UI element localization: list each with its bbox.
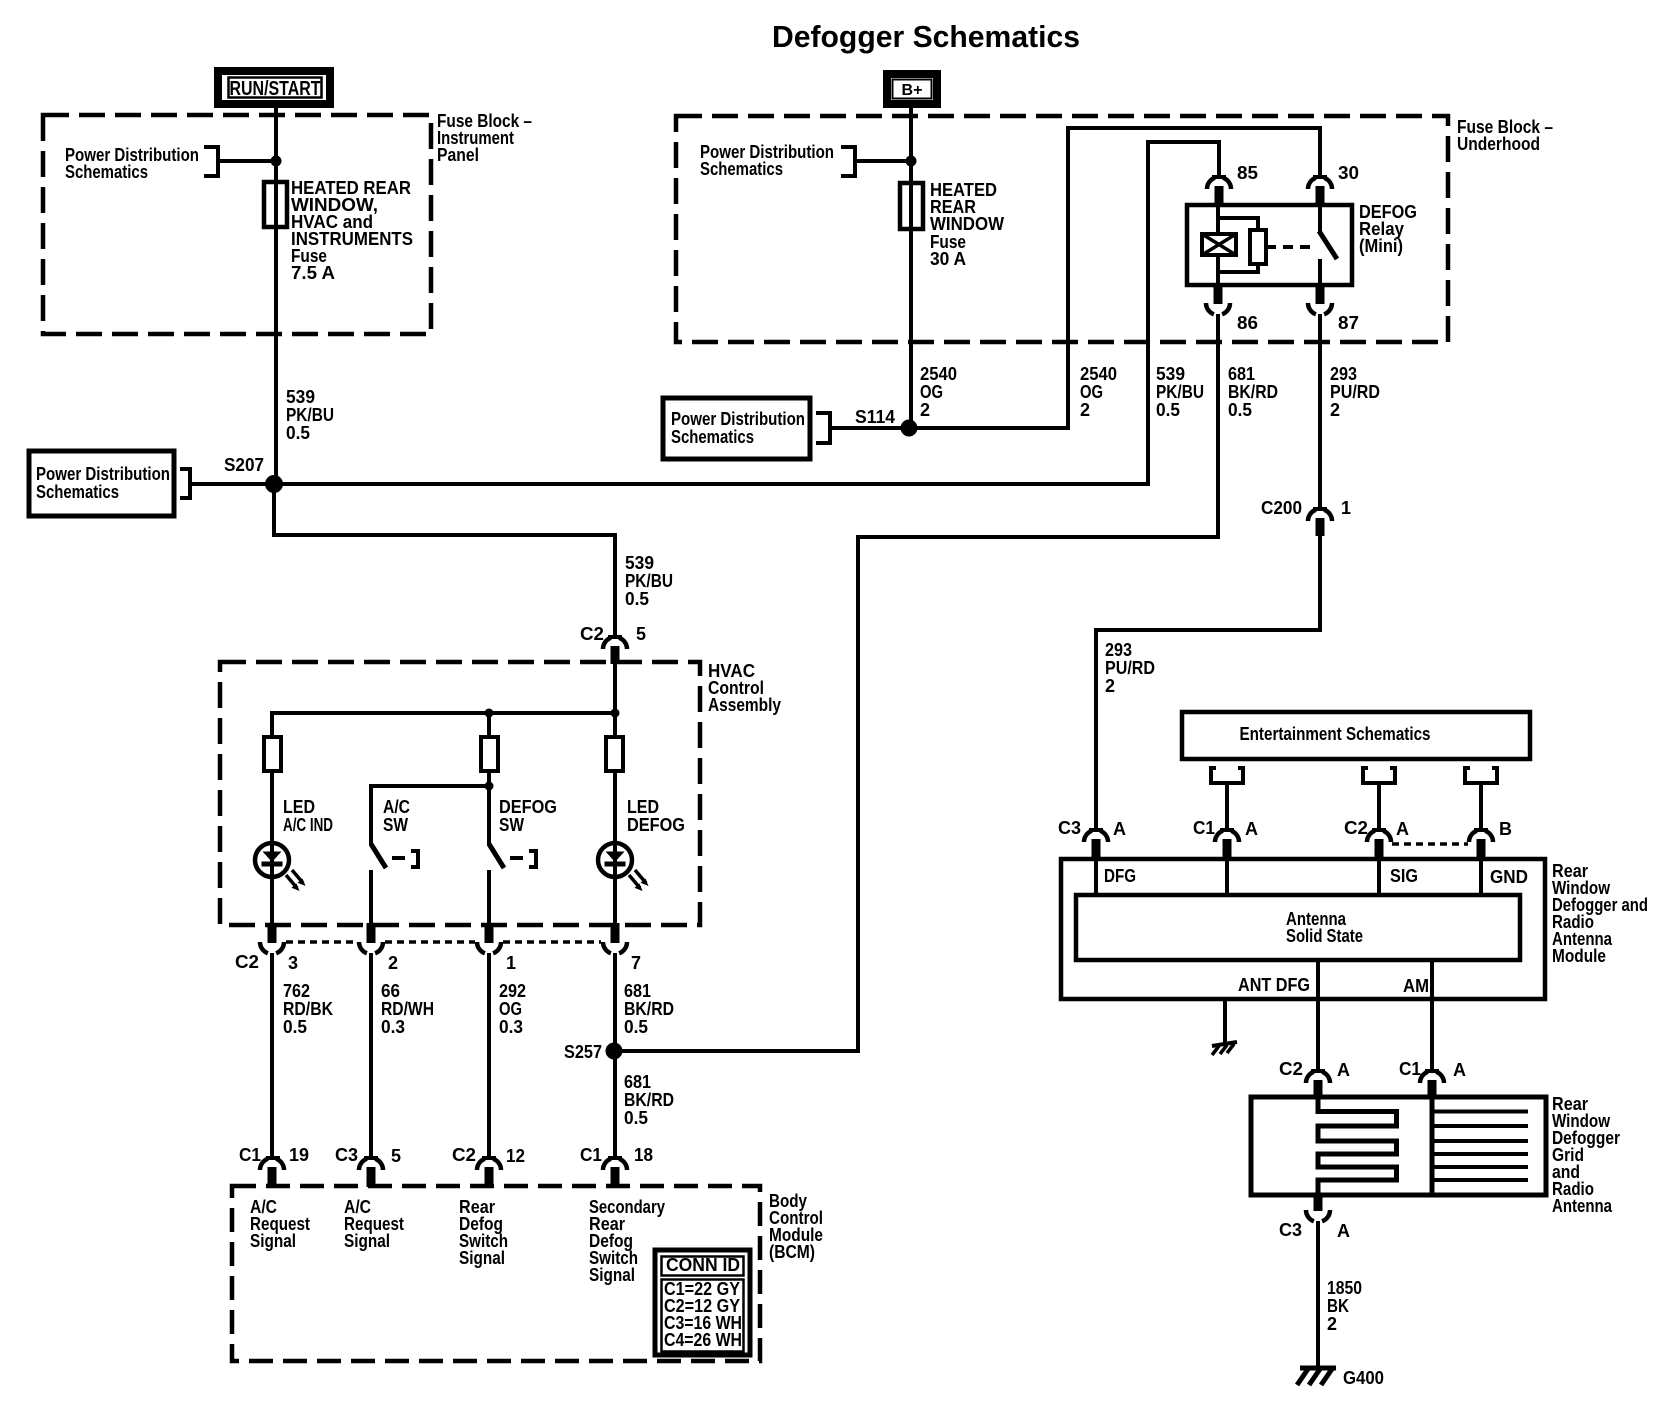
- label: circuit 762 RD/BK 0.5: [283, 981, 333, 1037]
- svg-text:DEFOG: DEFOG: [627, 815, 685, 835]
- svg-text:Defogger Schematics: Defogger Schematics: [772, 19, 1080, 54]
- svg-text:19: 19: [289, 1145, 309, 1165]
- label: circuit 293 PU/RD 2 (at relay): [1330, 364, 1380, 420]
- wire: resistor to LED DEFOG to connector: [613, 771, 617, 926]
- wire: bracket to S207: [190, 482, 268, 486]
- lead bracket: entertainment to B: [1465, 768, 1497, 830]
- lead bracket: entertainment to C2-A: [1363, 768, 1395, 830]
- title: Defogger Schematics: [772, 19, 1080, 54]
- label: circuit 66 RD/WH 0.3: [381, 981, 434, 1037]
- svg-text:12: 12: [506, 1146, 525, 1166]
- wire: 66 RD/WH to BCM: [369, 953, 373, 1158]
- HVAC control assembly dashed box: [220, 662, 700, 925]
- svg-text:A: A: [1396, 819, 1409, 839]
- svg-text:Schematics: Schematics: [700, 159, 783, 179]
- svg-text:Underhood: Underhood: [1457, 134, 1540, 154]
- label: Fuse Block - Underhood: [1457, 117, 1553, 154]
- svg-text:C3: C3: [335, 1145, 358, 1165]
- resistor: DEFOG SW branch resistor: [481, 737, 498, 771]
- svg-text:Assembly: Assembly: [708, 695, 781, 715]
- svg-text:Power Distribution: Power Distribution: [671, 409, 805, 429]
- svg-text:0.5: 0.5: [624, 1017, 648, 1037]
- svg-text:7: 7: [631, 953, 641, 973]
- svg-text:C3: C3: [1279, 1220, 1302, 1240]
- svg-text:GND: GND: [1490, 867, 1528, 887]
- svg-text:PK/BU: PK/BU: [1156, 382, 1204, 402]
- label: DEFOG Relay (Mini): [1359, 202, 1417, 256]
- svg-text:2540: 2540: [1080, 364, 1117, 384]
- connector pin 87 of relay: [1308, 284, 1359, 333]
- label: circuit 292 OG 0.3: [499, 981, 526, 1037]
- label: A/C Request Signal (pin 19): [250, 1197, 310, 1251]
- wire: fuse down to S207: [274, 227, 278, 478]
- wire: 539 PK/BU from S207 to HVAC C2-5: [274, 484, 615, 637]
- label: LED A/C IND: [283, 797, 333, 835]
- svg-text:0.5: 0.5: [625, 589, 649, 609]
- svg-text:681: 681: [624, 1072, 651, 1092]
- svg-text:BK: BK: [1327, 1296, 1349, 1316]
- svg-text:DEFOG: DEFOG: [499, 797, 557, 817]
- svg-text:85: 85: [1237, 163, 1258, 183]
- rear window defogger grid box: [1251, 1097, 1546, 1195]
- label: Secondary Rear Defog Switch Signal: [589, 1197, 665, 1285]
- svg-text:0.5: 0.5: [286, 423, 310, 443]
- body control module dashed box: [232, 1186, 760, 1361]
- svg-text:A: A: [1453, 1060, 1466, 1080]
- svg-text:S257: S257: [564, 1042, 602, 1062]
- svg-text:1: 1: [1341, 498, 1351, 518]
- connector C2 pin 7 (HVAC bottom): [603, 923, 641, 973]
- wire: DFG into antenna solid state: [1094, 859, 1098, 895]
- svg-text:LED: LED: [627, 797, 659, 817]
- connector C2 pin A (defogger grid): [1279, 1059, 1350, 1099]
- reference box: Power Distribution Schematics (at S114): [663, 398, 830, 459]
- switch: A/C SW: [371, 844, 418, 926]
- svg-text:PU/RD: PU/RD: [1330, 382, 1380, 402]
- module port name ANT DFG: [1238, 975, 1310, 995]
- svg-text:0.5: 0.5: [283, 1017, 307, 1037]
- node: bus junction at led defog branch: [611, 709, 620, 718]
- svg-text:WINDOW: WINDOW: [930, 214, 1004, 234]
- svg-text:86: 86: [1237, 313, 1258, 333]
- svg-text:RUN/START: RUN/START: [230, 78, 321, 100]
- svg-text:293: 293: [1105, 640, 1132, 660]
- svg-text:A/C: A/C: [383, 797, 410, 817]
- wire: SIG into antenna solid state: [1377, 859, 1381, 895]
- label: HVAC Control Assembly: [708, 661, 781, 715]
- svg-text:2: 2: [920, 400, 930, 420]
- wire: ANT DFG out of module: [1316, 960, 1320, 1071]
- svg-text:0.3: 0.3: [499, 1017, 523, 1037]
- svg-text:762: 762: [283, 981, 310, 1001]
- svg-text:292: 292: [499, 981, 526, 1001]
- power feed box RUN/START: [218, 71, 330, 104]
- wire: B+ down to fuse: [909, 104, 913, 182]
- svg-text:AM: AM: [1403, 976, 1429, 996]
- svg-text:Entertainment Schematics: Entertainment Schematics: [1240, 724, 1431, 744]
- svg-text:Solid State: Solid State: [1286, 926, 1363, 946]
- fuse block - instrument panel dashed box: [43, 115, 431, 334]
- connector pin 86 of relay: [1206, 284, 1258, 333]
- svg-text:OG: OG: [499, 999, 522, 1019]
- label: LED DEFOG: [627, 797, 685, 835]
- connector C2 pin A (module SIG): [1344, 818, 1409, 860]
- svg-text:30 A: 30 A: [930, 249, 966, 269]
- connector C2 pin 1 (HVAC bottom): [477, 923, 516, 973]
- switch: DEFOG SW: [489, 844, 536, 926]
- label: circuit 2540 OG 2 (left of S114 riser): [920, 364, 957, 420]
- node: splice S207: [224, 455, 283, 493]
- svg-text:1850: 1850: [1327, 1278, 1362, 1298]
- svg-text:2: 2: [1105, 676, 1115, 696]
- node: splice S257: [564, 1042, 623, 1062]
- svg-text:G400: G400: [1343, 1368, 1384, 1388]
- module pin name DFG: [1104, 866, 1136, 886]
- svg-text:C2: C2: [1279, 1059, 1303, 1079]
- label: circuit 681 BK/RD 0.5 (below S257): [624, 1072, 674, 1128]
- wire: bracket to B+ feed: [855, 159, 907, 163]
- label: circuit 681 BK/RD 0.5 (at relay): [1228, 364, 1278, 420]
- svg-text:0.3: 0.3: [381, 1017, 405, 1037]
- svg-text:DFG: DFG: [1104, 866, 1136, 886]
- wire: 681 BK/RD from pin 86 to S257: [620, 314, 1218, 1051]
- svg-text:C200: C200: [1261, 498, 1302, 518]
- connector C2 pin 3 (HVAC bottom): [235, 923, 298, 973]
- wire: bracket to S114: [830, 426, 903, 430]
- svg-text:539: 539: [286, 387, 315, 407]
- fuse: HEATED REAR WINDOW, HVAC and INSTRUMENTS 7.5 A: [264, 181, 287, 227]
- label: Fuse Block - Instrument Panel: [437, 111, 532, 165]
- svg-text:Signal: Signal: [250, 1231, 296, 1251]
- wire: AM out of module: [1430, 960, 1434, 1071]
- connector C1 pin 18 (BCM): [580, 1145, 653, 1187]
- wire: DEFOG SW branch: [487, 771, 491, 845]
- defogger grid element (serpentine): [1318, 1097, 1397, 1195]
- svg-text:PK/BU: PK/BU: [625, 571, 673, 591]
- wire: fuse 30A down to S114: [909, 229, 913, 428]
- reference: Power Distribution Schematics (underhood): [700, 142, 855, 179]
- wire: 681 BK/RD to BCM via S257: [613, 953, 617, 1158]
- svg-text:2: 2: [1330, 400, 1340, 420]
- connector C1 pin 19 (BCM): [239, 1145, 309, 1187]
- svg-text:SW: SW: [383, 815, 408, 835]
- label: circuit 539 PK/BU 0.5 (above HVAC): [625, 553, 673, 609]
- svg-text:Schematics: Schematics: [36, 482, 119, 502]
- label: HEATED REAR WINDOW, HVAC and INSTRUMENTS Fuse 7.5 A: [291, 178, 413, 283]
- fuse: HEATED REAR WINDOW 30 A: [900, 182, 923, 229]
- svg-text:RD/WH: RD/WH: [381, 999, 434, 1019]
- svg-text:(Mini): (Mini): [1359, 236, 1403, 256]
- connector C3 pin A (grid ground lead): [1279, 1194, 1350, 1241]
- svg-text:Antenna: Antenna: [1552, 1196, 1613, 1216]
- svg-text:SW: SW: [499, 815, 524, 835]
- connector C2 dashed tie line: [286, 940, 601, 944]
- svg-text:C1: C1: [580, 1145, 602, 1165]
- label: DEFOG SW: [499, 797, 557, 835]
- svg-text:BK/RD: BK/RD: [624, 1090, 674, 1110]
- svg-text:SIG: SIG: [1390, 866, 1418, 886]
- svg-text:3: 3: [288, 953, 298, 973]
- connector C1 pin A (radio antenna): [1399, 1059, 1466, 1099]
- svg-text:Power Distribution: Power Distribution: [36, 464, 170, 484]
- svg-text:2: 2: [1327, 1314, 1337, 1334]
- svg-text:LED: LED: [283, 797, 315, 817]
- module pin name SIG: [1390, 866, 1418, 886]
- wire: HVAC internal supply bus: [272, 660, 615, 737]
- svg-text:BK/RD: BK/RD: [624, 999, 674, 1019]
- wire: A/C SW branch tap: [371, 782, 494, 846]
- connector pin B (module GND): [1469, 819, 1512, 860]
- svg-text:C3: C3: [1058, 818, 1081, 838]
- node: junction at B+ feed: [906, 156, 917, 167]
- reference box: Entertainment Schematics: [1182, 712, 1530, 759]
- svg-text:Module: Module: [1552, 946, 1606, 966]
- node: splice S114: [855, 407, 918, 437]
- wire: RUN/START down to fuse: [274, 104, 278, 181]
- svg-text:S207: S207: [224, 455, 264, 475]
- wire: C1-A into antenna solid state: [1225, 859, 1229, 895]
- svg-text:5: 5: [391, 1146, 401, 1166]
- svg-text:A: A: [1337, 1060, 1350, 1080]
- svg-text:A: A: [1245, 819, 1258, 839]
- svg-text:BK/RD: BK/RD: [1228, 382, 1278, 402]
- wire: bracket to RUN/START feed: [218, 159, 272, 163]
- node: bus junction at defog sw branch: [485, 709, 494, 718]
- svg-text:2: 2: [1080, 400, 1090, 420]
- connector C200 pin 1: [1261, 498, 1351, 536]
- svg-text:18: 18: [634, 1145, 653, 1165]
- svg-text:Schematics: Schematics: [671, 427, 754, 447]
- label: circuit 2540 OG 2 (second): [1080, 364, 1117, 420]
- svg-text:87: 87: [1338, 313, 1359, 333]
- table: CONN ID: [655, 1250, 750, 1355]
- connector C2 pin 2 (HVAC bottom): [359, 923, 398, 973]
- LED indicator: DEFOG: [598, 843, 649, 891]
- wire: 293 PU/RD from C200 down to module DFG: [1096, 534, 1320, 829]
- label: circuit 539 PK/BU 0.5 (at fuse block underhood): [1156, 364, 1204, 420]
- svg-text:C1: C1: [239, 1145, 261, 1165]
- connector C1 pin A (module): [1193, 818, 1258, 860]
- svg-text:PK/BU: PK/BU: [286, 405, 334, 425]
- svg-text:539: 539: [625, 553, 654, 573]
- connector C3 pin A (module DFG): [1058, 818, 1126, 860]
- svg-text:C1: C1: [1399, 1059, 1421, 1079]
- svg-text:CONN ID: CONN ID: [666, 1255, 740, 1275]
- wire: 292 OG to BCM: [487, 953, 491, 1158]
- chassis ground (module): [1212, 1042, 1237, 1055]
- reference: Power Distribution Schematics (top left): [65, 145, 218, 182]
- relay armature dashed link: [1266, 245, 1316, 249]
- svg-text:539: 539: [1156, 364, 1185, 384]
- svg-text:OG: OG: [1080, 382, 1103, 402]
- svg-text:681: 681: [624, 981, 651, 1001]
- svg-text:Schematics: Schematics: [65, 162, 148, 182]
- svg-text:C2: C2: [580, 624, 604, 644]
- connector pin 85 of relay: [1207, 163, 1258, 206]
- module box: Rear Window Defogger and Radio Antenna Module: [1061, 859, 1545, 999]
- svg-text:S114: S114: [855, 407, 895, 427]
- connector dashed tie C2A to B: [1392, 842, 1468, 846]
- svg-text:0.5: 0.5: [1228, 400, 1252, 420]
- wire: 762 RD/BK to BCM: [270, 953, 274, 1158]
- svg-text:PU/RD: PU/RD: [1105, 658, 1155, 678]
- wire: module case ground: [1223, 999, 1227, 1043]
- relay coil (box with X): [1202, 205, 1258, 285]
- svg-text:66: 66: [381, 981, 400, 1001]
- svg-text:OG: OG: [920, 382, 943, 402]
- svg-text:B+: B+: [902, 82, 923, 99]
- svg-text:681: 681: [1228, 364, 1255, 384]
- wire: 539 PK/BU from S207 to relay pin 85: [274, 142, 1219, 484]
- svg-text:Signal: Signal: [344, 1231, 390, 1251]
- svg-text:ANT DFG: ANT DFG: [1238, 975, 1310, 995]
- svg-text:2: 2: [388, 953, 398, 973]
- module port name AM: [1403, 976, 1429, 996]
- label: A/C SW: [383, 797, 410, 835]
- wire: resistor to LED A/C IND to connector: [270, 771, 274, 926]
- LED indicator: A/C IND: [255, 843, 306, 891]
- label: HEATED REAR WINDOW Fuse 30 A: [930, 180, 1004, 269]
- reference box: Power Distribution Schematics (at S207): [29, 451, 190, 516]
- svg-text:A/C IND: A/C IND: [283, 815, 333, 835]
- label: Body Control Module (BCM): [769, 1191, 823, 1262]
- connector C2 pin 5 (HVAC control assembly): [580, 624, 646, 664]
- label: circuit 539 PK/BU 0.5 (left): [286, 387, 334, 443]
- label: A/C Request Signal (pin 5): [344, 1197, 404, 1251]
- wire: 2540 OG from S114 to relay pin 30: [909, 128, 1320, 428]
- svg-text:0.5: 0.5: [1156, 400, 1180, 420]
- label: Rear Window Defogger Grid and Radio Antenna: [1552, 1094, 1620, 1216]
- relay coil suppression resistor: [1250, 230, 1266, 264]
- svg-text:B: B: [1499, 819, 1512, 839]
- svg-text:Signal: Signal: [589, 1265, 635, 1285]
- svg-text:1: 1: [506, 953, 516, 973]
- node: junction at RUN/START feed: [271, 156, 282, 167]
- label: circuit 293 PU/RD 2 (above module): [1105, 640, 1155, 696]
- svg-text:5: 5: [636, 624, 646, 644]
- relay K1: DEFOG Relay (Mini) box: [1187, 205, 1352, 285]
- svg-text:293: 293: [1330, 364, 1357, 384]
- svg-text:7.5 A: 7.5 A: [291, 263, 335, 283]
- lead bracket: entertainment to C1-A: [1211, 768, 1243, 830]
- svg-text:Panel: Panel: [437, 145, 479, 165]
- svg-text:C2: C2: [452, 1145, 476, 1165]
- svg-text:C2: C2: [235, 952, 259, 972]
- relay switch contacts: [1319, 205, 1337, 285]
- wire: 293 PU/RD from pin 87 to C200: [1318, 314, 1322, 509]
- inner box: Antenna Solid State: [1076, 895, 1520, 960]
- svg-text:C4=26 WH: C4=26 WH: [664, 1330, 742, 1350]
- fuse block - underhood dashed box: [676, 116, 1448, 342]
- connector C3 pin 5 (BCM): [335, 1145, 401, 1187]
- label: Rear Defog Switch Signal: [459, 1197, 508, 1268]
- svg-text:RD/BK: RD/BK: [283, 999, 333, 1019]
- wire: GND into antenna solid state: [1479, 859, 1483, 895]
- power feed box B+: [887, 74, 937, 104]
- resistor: LED A/C IND dropping resistor: [264, 713, 489, 771]
- wire: 1850 BK to G400: [1316, 1221, 1320, 1368]
- svg-text:C1: C1: [1193, 818, 1215, 838]
- svg-text:A: A: [1337, 1221, 1350, 1241]
- svg-text:A: A: [1113, 819, 1126, 839]
- label: circuit 681 BK/RD 0.5 (above S257): [624, 981, 674, 1037]
- svg-text:C2: C2: [1344, 818, 1368, 838]
- svg-text:2540: 2540: [920, 364, 957, 384]
- module pin name GND: [1490, 867, 1528, 887]
- svg-text:0.5: 0.5: [624, 1108, 648, 1128]
- svg-text:Signal: Signal: [459, 1248, 505, 1268]
- connector pin 30 of relay: [1308, 163, 1359, 206]
- label: Rear Window Defogger and Radio Antenna Module: [1552, 861, 1648, 966]
- svg-text:30: 30: [1338, 163, 1359, 183]
- ground G400: [1297, 1368, 1384, 1388]
- svg-text:(BCM): (BCM): [769, 1242, 815, 1262]
- resistor: LED DEFOG dropping resistor: [606, 737, 623, 771]
- connector C2 pin 12 (BCM): [452, 1145, 525, 1187]
- radio antenna element: [1432, 1097, 1528, 1195]
- label: circuit 1850 BK 2: [1327, 1278, 1362, 1334]
